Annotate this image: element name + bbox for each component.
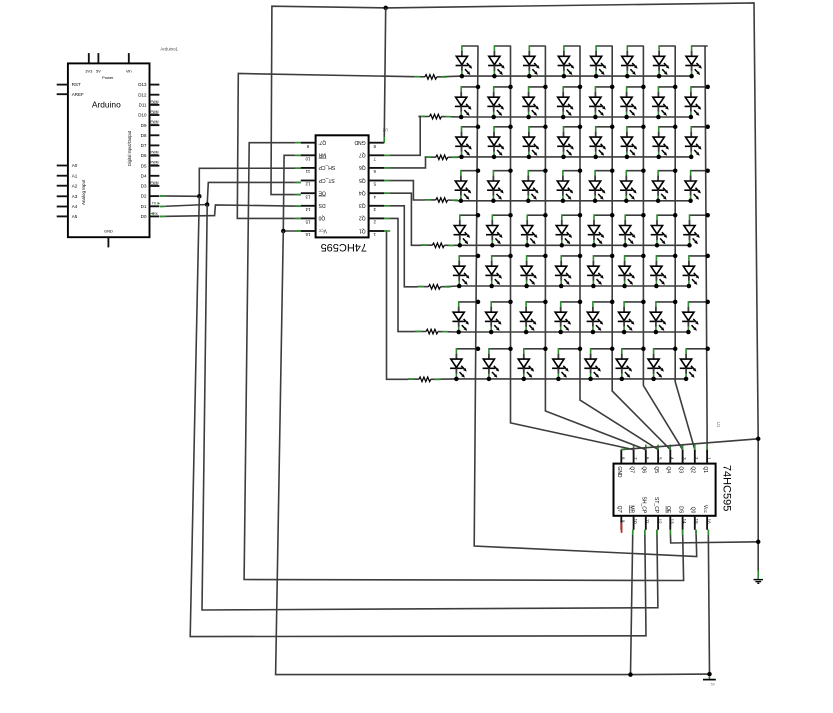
- U1 pin 14 (DS) lead: [682, 516, 684, 530]
- U2 pin 14 (DS) lead: [301, 205, 316, 207]
- wire U2 Q7' cascade to U1 DS (pin 14): [244, 143, 683, 581]
- U2 pin 12 (ST_CP) lead: [301, 180, 316, 182]
- U2 pin 16 (VCC) lead: [301, 230, 316, 232]
- svg-text:Q4: Q4: [359, 190, 366, 196]
- svg-text:PWM: PWM: [150, 120, 158, 124]
- Arduino pin D3 stub: [150, 185, 160, 187]
- LED row6 col6: [618, 254, 645, 289]
- LED row4 col2: [487, 168, 513, 203]
- Arduino pin D4 stub: [150, 175, 160, 177]
- svg-text:D8: D8: [141, 133, 147, 138]
- column 4 wire: [580, 46, 658, 450]
- U1 pin 7 (Q7) lead: [633, 450, 635, 464]
- Arduino pin D13 stub: [150, 84, 160, 86]
- LED row4 col5: [589, 168, 615, 203]
- resistor R7 (row 7): [426, 329, 438, 334]
- svg-text:D2: D2: [141, 194, 147, 199]
- U2 pin 3 (Q3) lead: [369, 205, 385, 207]
- svg-text:Q1: Q1: [359, 227, 366, 233]
- svg-text:11: 11: [305, 169, 310, 174]
- svg-text:DS: DS: [318, 202, 326, 208]
- LED row4 col7: [652, 168, 678, 203]
- row 2 wire (resistor to LEDs): [418, 115, 691, 118]
- Arduino pin A3 stub: [57, 195, 68, 197]
- LED row4 col4: [557, 168, 583, 203]
- svg-text:Q3: Q3: [678, 466, 684, 473]
- svg-text:GND: GND: [104, 228, 113, 233]
- svg-text:D12: D12: [138, 92, 147, 97]
- svg-text:D9: D9: [141, 123, 147, 128]
- svg-text:D13: D13: [138, 82, 147, 87]
- Arduino pin D9 stub: [150, 124, 160, 126]
- svg-text:SH_CP: SH_CP: [641, 497, 647, 514]
- U1 pin 6 (Q6) lead: [645, 450, 647, 464]
- U2 pin 13 (OE) lead: [301, 192, 316, 194]
- junction U1 MR on VCC rail: [628, 672, 633, 677]
- svg-text:PWM: PWM: [150, 161, 158, 165]
- svg-text:OE: OE: [318, 190, 326, 196]
- svg-text:RX: RX: [153, 212, 158, 216]
- svg-text:D10: D10: [138, 113, 147, 118]
- svg-text:SH_CP: SH_CP: [318, 164, 335, 170]
- svg-text:14: 14: [305, 207, 310, 212]
- svg-text:Power: Power: [102, 75, 114, 80]
- svg-text:Q2: Q2: [359, 215, 366, 221]
- svg-text:15: 15: [694, 519, 699, 524]
- LED row6 col7: [650, 254, 677, 289]
- row 4 wire (resistor to LEDs): [425, 200, 691, 201]
- LED row4 col3: [522, 168, 548, 203]
- wire U2 GND pin to top rail: [384, 8, 386, 143]
- resistor R3 (row 3): [436, 155, 448, 160]
- LED row7 col5: [587, 300, 615, 335]
- U1 pin 9 (Q7') lead: [620, 516, 622, 530]
- svg-text:74HC595: 74HC595: [321, 241, 367, 253]
- junction U1-GND on ground rail: [756, 437, 761, 442]
- LED row3 col3: [523, 125, 548, 160]
- power symbol 5V on VCC rail: [703, 676, 716, 686]
- svg-text:D3: D3: [141, 184, 147, 189]
- U1 pin 2 (Q2) lead: [694, 450, 696, 464]
- Arduino pin D5 stub: [150, 165, 160, 167]
- Arduino pin A1 stub: [57, 175, 68, 177]
- svg-text:A2: A2: [72, 183, 78, 188]
- LED row1 col8: [685, 45, 707, 78]
- LED row2 col6: [620, 85, 645, 120]
- Arduino pin D11 stub: [150, 104, 160, 106]
- wire VCC rail down and across bottom: [276, 231, 710, 675]
- U1 pin 4 (Q4) lead: [669, 450, 671, 464]
- svg-text:PWM: PWM: [150, 151, 158, 155]
- junction VCC node at U2: [281, 229, 286, 234]
- wire U2 Q0 (pin 15) to row 1: [237, 74, 414, 219]
- row 8 wire (resistor to LEDs): [408, 378, 686, 381]
- LED row8 col2: [483, 347, 513, 382]
- Arduino pin 3V3 stub: [88, 53, 90, 63]
- row 1 wire (resistor to LEDs): [414, 75, 692, 78]
- column 7 wire: [675, 46, 695, 450]
- U2 pin 9 (Q7prime) lead: [301, 142, 316, 144]
- LED row1 col1: [456, 45, 478, 78]
- U2 pin 6 (Q6) lead: [369, 167, 385, 169]
- LED row7 col3: [520, 300, 548, 335]
- svg-text:U2: U2: [382, 127, 388, 132]
- column 3 wire: [545, 46, 645, 450]
- column 1 wire: [474, 46, 697, 557]
- svg-text:GND: GND: [616, 466, 622, 478]
- Arduino pin D0 stub: [150, 215, 160, 217]
- junction U1 VCC on VCC rail: [707, 672, 712, 677]
- LED row8 col1: [450, 347, 480, 382]
- svg-text:Analog Input: Analog Input: [81, 179, 86, 205]
- svg-text:10: 10: [633, 519, 638, 524]
- Arduino pin GND stub: [107, 237, 109, 247]
- LED row1 col4: [558, 45, 580, 78]
- svg-text:Q1: Q1: [702, 466, 708, 473]
- wire VCC net: U2 VCC pin to node: [283, 230, 301, 232]
- svg-text:PWM: PWM: [150, 110, 158, 114]
- U2 pin 15 (Q0) lead: [301, 217, 316, 219]
- svg-text:A1: A1: [72, 173, 78, 178]
- U2 pin 11 (SH_CP) lead: [301, 167, 316, 169]
- LED row1 col6: [621, 45, 643, 78]
- svg-text:Digital Input/Output: Digital Input/Output: [127, 130, 132, 166]
- LED row5 col1: [454, 213, 481, 248]
- Arduino pin D8 stub: [150, 134, 160, 136]
- LED row6 col4: [555, 254, 582, 289]
- LED row3 col1: [455, 125, 480, 160]
- svg-text:13: 13: [670, 519, 675, 524]
- U1 pin 3 (Q3) lead: [682, 450, 684, 464]
- svg-text:D1: D1: [141, 204, 147, 209]
- LED row8 col5: [584, 347, 614, 382]
- LED row8 col3: [518, 347, 548, 382]
- svg-text:D7: D7: [141, 143, 147, 148]
- wire D1 net down to U1 ST_CP (pin 12): [202, 205, 658, 611]
- Arduino pin RST stub: [57, 84, 68, 86]
- LED row6 col8: [683, 254, 710, 289]
- LED row1 col7: [653, 45, 675, 78]
- U1 MR overline: [628, 505, 630, 513]
- svg-text:Arduino: Arduino: [92, 99, 121, 109]
- LED row5 col7: [651, 213, 678, 248]
- Arduino pin A5 stub: [57, 215, 68, 217]
- svg-text:D4: D4: [141, 173, 147, 178]
- resistor R8 (row 8): [419, 377, 431, 382]
- svg-text:GND: GND: [354, 139, 366, 145]
- LED row1 col5: [590, 45, 612, 78]
- LED row8 col4: [552, 347, 582, 382]
- svg-text:16: 16: [305, 232, 310, 237]
- Arduino pin D2 stub: [150, 195, 160, 197]
- wire VCC net: U2 MR to VCC node: [283, 155, 301, 231]
- LED row7 col8: [682, 300, 710, 335]
- svg-text:Q0: Q0: [318, 215, 325, 221]
- svg-text:16: 16: [706, 519, 711, 524]
- svg-text:12: 12: [305, 182, 310, 187]
- LED row2 col4: [557, 85, 582, 120]
- LED row8 col7: [647, 347, 677, 382]
- Arduino (Arduino1) module body: [68, 63, 150, 237]
- svg-text:10: 10: [305, 156, 310, 161]
- U2 pin 2 (Q2) lead: [369, 217, 385, 219]
- svg-text:PWM: PWM: [150, 181, 158, 185]
- LED row3 col5: [589, 125, 614, 160]
- LED row6 col5: [587, 254, 614, 289]
- LED row3 col6: [621, 125, 646, 160]
- LED row8 col6: [616, 347, 646, 382]
- Arduino pin 5V stub: [97, 53, 99, 63]
- svg-text:14: 14: [682, 519, 687, 524]
- U2 pin 8 (GND) lead: [369, 142, 385, 144]
- junction OE-ground: [756, 540, 761, 545]
- LED row6 col2: [485, 254, 512, 289]
- LED row2 col1: [455, 85, 480, 120]
- Arduino pin A4 stub: [57, 206, 68, 208]
- U1 pin 1 (Q1) lead: [706, 450, 708, 464]
- wire U2 Q4 to row 5: [384, 193, 421, 245]
- LED row7 col6: [618, 300, 646, 335]
- LED row7 col2: [485, 300, 513, 335]
- svg-text:A5: A5: [72, 214, 78, 219]
- LED row3 col2: [488, 125, 513, 160]
- LED row5 col3: [521, 213, 548, 248]
- svg-text:5V: 5V: [96, 69, 101, 74]
- LED row2 col7: [652, 85, 677, 120]
- svg-text:ST_CP: ST_CP: [318, 177, 335, 183]
- svg-text:D0: D0: [141, 214, 147, 219]
- resistor R1 (row 1): [425, 75, 437, 80]
- svg-text:D5: D5: [141, 163, 147, 168]
- wire U1 OE (pin 13) to ground rail: [670, 530, 758, 543]
- svg-text:Vin: Vin: [126, 69, 132, 74]
- U2 pin 5 (Q5) lead: [369, 180, 385, 182]
- svg-text:3V3: 3V3: [85, 69, 93, 74]
- svg-text:Q7': Q7': [319, 139, 327, 145]
- svg-text:PWM: PWM: [150, 100, 158, 104]
- LED row3 col4: [557, 125, 582, 160]
- svg-text:Q2: Q2: [690, 466, 696, 473]
- U2 MR overline: [319, 157, 327, 159]
- wire U1 GND (pin 8) to ground rail: [621, 439, 758, 450]
- LED row4 col6: [620, 168, 646, 203]
- resistor R4 (row 4): [436, 198, 448, 203]
- wire GND loop (U2 OE to top rail to ground): [271, 3, 758, 571]
- svg-text:AREF: AREF: [72, 92, 84, 97]
- LED row1 col2: [488, 45, 510, 78]
- wire U2 Q2 to row 7: [384, 218, 415, 331]
- row 7 wire (resistor to LEDs): [415, 330, 688, 333]
- column 2 wire: [511, 46, 634, 450]
- LED row7 col7: [650, 300, 678, 335]
- wire D0 to U2 DS: [160, 205, 301, 217]
- svg-text:MR: MR: [318, 152, 326, 158]
- wire D2 net down to U1 SH_CP (pin 11): [190, 196, 646, 636]
- Arduino pin D6 stub: [150, 155, 160, 157]
- LED row1 col3: [523, 45, 545, 78]
- svg-text:A0: A0: [72, 163, 78, 168]
- LED row4 col1: [455, 168, 481, 203]
- svg-text:D11: D11: [139, 103, 147, 108]
- LED row2 col8: [685, 85, 710, 120]
- row 3 wire (resistor to LEDs): [425, 156, 692, 159]
- svg-text:12: 12: [657, 519, 662, 524]
- svg-text:Q7': Q7': [616, 506, 622, 514]
- svg-text:15: 15: [305, 220, 310, 225]
- resistor R2 (row 2): [429, 114, 441, 119]
- wire D2 to U2 SH_CP: [160, 195, 199, 197]
- U2 pin 7 (Q7) lead: [369, 154, 385, 156]
- svg-text:DS: DS: [678, 506, 684, 514]
- wire U1 MR (pin 10) to VCC rail: [631, 530, 633, 675]
- Arduino pin Vin stub: [128, 53, 130, 63]
- svg-text:Q7: Q7: [629, 466, 635, 473]
- row 6 wire (resistor to LEDs): [417, 285, 689, 288]
- wire U1 VCC (pin 16) to VCC rail: [708, 530, 709, 674]
- svg-text:U1: U1: [716, 422, 721, 428]
- Arduino pin AREF stub: [57, 93, 68, 95]
- U1 pin 9 unconnected red stub: [620, 523, 622, 533]
- junction D2 node: [197, 194, 202, 199]
- U1 pin 10 (MR) lead: [633, 516, 635, 530]
- U1 pin 5 (Q5) lead: [657, 450, 659, 464]
- column 5 wire: [612, 46, 670, 450]
- svg-text:13: 13: [305, 194, 310, 199]
- svg-text:ST_CP: ST_CP: [653, 497, 659, 514]
- column 6 wire: [643, 46, 682, 450]
- column 8 wire: [705, 46, 707, 450]
- LED row3 col7: [652, 125, 677, 160]
- LED row8 col8: [680, 347, 710, 382]
- svg-text:11: 11: [645, 519, 650, 524]
- Arduino pin D12 stub: [150, 94, 160, 96]
- svg-text:5V: 5V: [711, 682, 716, 686]
- svg-text:Q7: Q7: [359, 152, 366, 158]
- LED row7 col4: [554, 300, 582, 335]
- svg-text:RST: RST: [72, 82, 81, 87]
- svg-text:Q3: Q3: [359, 202, 366, 208]
- 74HC595 shift register U2 body: [316, 135, 369, 237]
- LED row6 col3: [520, 254, 547, 289]
- svg-text:Q4: Q4: [665, 466, 671, 473]
- U1 pin 16 (VCC) lead: [706, 516, 708, 530]
- Arduino pin A0 stub: [57, 165, 68, 167]
- svg-text:Q5: Q5: [359, 177, 366, 183]
- junction D1 node: [205, 202, 210, 207]
- U2 OE overline: [319, 195, 326, 197]
- wire U2 Q7 to row 2: [384, 117, 420, 156]
- Arduino pin D1 stub: [150, 205, 160, 207]
- 74HC595 shift register U1 body: [614, 464, 716, 516]
- LED row5 col2: [486, 213, 513, 248]
- resistor R6 (row 6): [428, 285, 440, 290]
- LED row5 col8: [683, 213, 710, 248]
- svg-text:Q0: Q0: [690, 507, 696, 514]
- U2 pin 4 (Q4) lead: [369, 192, 385, 194]
- wire D1 to U2 ST_CP: [160, 205, 207, 207]
- LED row5 col4: [556, 213, 583, 248]
- U1 pin 15 (Q0) lead: [694, 516, 696, 530]
- Arduino pin D10 stub: [150, 114, 160, 116]
- svg-text:Q6: Q6: [359, 164, 366, 170]
- U2 pin 1 (Q1) lead: [369, 230, 385, 232]
- svg-text:Arduino1: Arduino1: [160, 46, 178, 51]
- junction on top GND rail: [383, 6, 388, 10]
- LED row3 col8: [685, 125, 710, 160]
- LED row6 col1: [453, 254, 480, 289]
- U1 pin 8 (GND) lead: [620, 450, 622, 464]
- svg-text:D6: D6: [141, 153, 147, 158]
- row 5 wire (resistor to LEDs): [421, 244, 689, 246]
- U1 pin 11 (SH_CP) lead: [645, 516, 647, 530]
- LED row7 col1: [452, 300, 480, 335]
- U1 pin 12 (ST_CP) lead: [657, 516, 659, 530]
- ground symbol GND1: [754, 580, 764, 584]
- svg-text:Q6: Q6: [641, 466, 647, 473]
- U1 OE overline: [665, 506, 667, 513]
- svg-text:A3: A3: [72, 194, 78, 199]
- LED row4 col8: [684, 168, 710, 203]
- wire U2 Q6 to row 3: [384, 157, 425, 168]
- resistor R5 (row 5): [432, 243, 444, 248]
- wire U2 Q1 to row 8: [384, 231, 408, 379]
- wire U2 Q3 to row 6: [384, 206, 417, 287]
- svg-text:A4: A4: [72, 204, 78, 209]
- LED row5 col6: [619, 213, 646, 248]
- U1 pin 13 (OE) lead: [669, 516, 671, 530]
- LED row5 col5: [588, 213, 615, 248]
- Arduino pin D7 stub: [150, 144, 160, 146]
- LED row2 col5: [589, 85, 614, 120]
- svg-text:74HC595: 74HC595: [721, 465, 733, 511]
- Arduino pin A2 stub: [57, 185, 68, 187]
- LED row2 col3: [522, 85, 547, 120]
- wire U2 Q5 to row 4: [384, 181, 425, 200]
- svg-text:Q5: Q5: [653, 466, 659, 473]
- LED row2 col2: [487, 85, 512, 120]
- U2 pin 10 (MR) lead: [301, 154, 316, 156]
